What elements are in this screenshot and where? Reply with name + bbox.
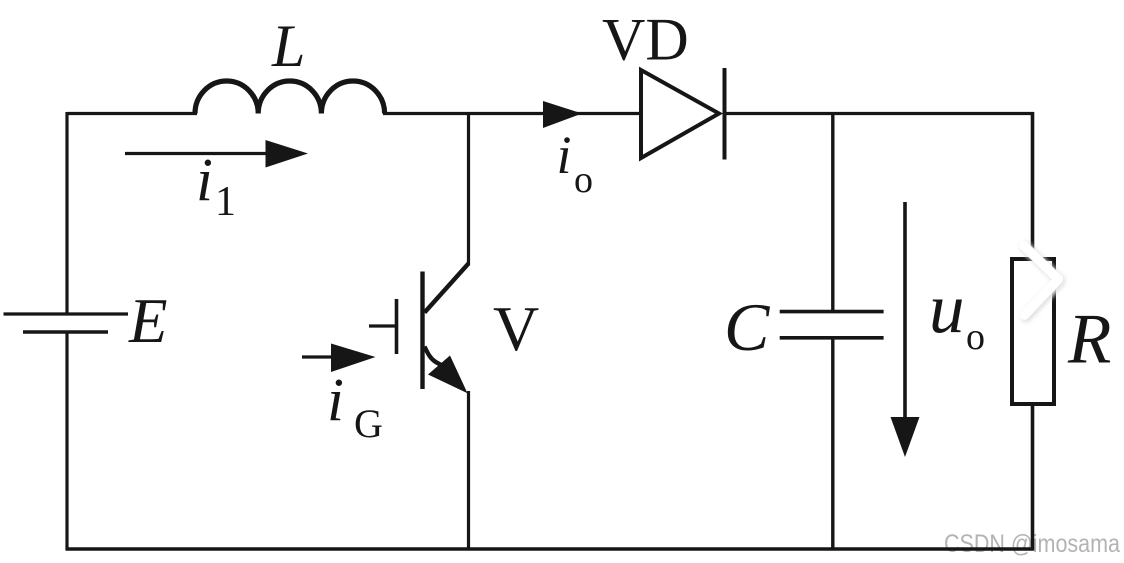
- svg-text:L: L: [271, 13, 305, 79]
- wire right vertical (top corner to resistor): [1031, 112, 1035, 257]
- transistor V collector diagonal: [425, 264, 469, 313]
- svg-text:1: 1: [215, 179, 236, 225]
- capacitor C bottom wire: [831, 340, 834, 551]
- arrow iG: [302, 355, 340, 358]
- arrow uo: [903, 202, 907, 425]
- wire top-left horizontal: [67, 112, 197, 115]
- svg-text:i: i: [327, 367, 344, 434]
- svg-text:o: o: [966, 316, 985, 358]
- capacitor C bottom plate: [780, 336, 884, 340]
- transistor V gate lead: [369, 324, 395, 327]
- wire bottom horizontal: [66, 547, 1035, 551]
- svg-text:i: i: [196, 147, 213, 214]
- svg-text:G: G: [354, 401, 383, 446]
- transistor V emitter curve: [425, 347, 446, 368]
- wire top middle horizontal (inductor to diode): [383, 112, 641, 115]
- battery E plate short: [23, 330, 108, 334]
- capacitor C top plate: [780, 310, 884, 314]
- diode VD triangle: [641, 70, 719, 158]
- watermark chevron: [1025, 247, 1060, 317]
- svg-text:V: V: [493, 293, 539, 364]
- diode VD cathode bar: [723, 68, 727, 160]
- wire top right horizontal (diode to right corner): [724, 112, 1034, 115]
- wire right vertical (resistor to bottom corner): [1031, 406, 1035, 551]
- transistor V collector wire: [467, 112, 470, 265]
- wire left vertical (battery to bottom corner): [65, 332, 68, 551]
- svg-text:i: i: [557, 125, 572, 185]
- arrow io on top wire: [543, 101, 582, 128]
- transistor V emitter arrowhead: [428, 356, 468, 394]
- transistor V emitter wire: [467, 391, 470, 550]
- svg-text:C: C: [724, 289, 770, 365]
- svg-text:o: o: [574, 159, 593, 201]
- capacitor C top wire: [831, 112, 834, 310]
- wire left vertical (top corner to battery): [65, 112, 68, 313]
- resistor R body: [1012, 259, 1054, 404]
- battery E plate long: [4, 312, 129, 315]
- inductor L coil: [195, 81, 385, 114]
- svg-text:VD: VD: [602, 7, 689, 73]
- svg-text:R: R: [1067, 301, 1111, 379]
- transistor V main bar: [420, 272, 424, 390]
- svg-text:E: E: [128, 286, 167, 356]
- transistor V gate bar: [395, 299, 399, 354]
- arrow i1: [125, 152, 272, 155]
- svg-text:u: u: [929, 270, 965, 348]
